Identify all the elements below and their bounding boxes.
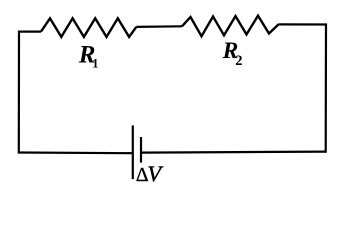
resistor R1: [41, 18, 136, 37]
wire: between R1 and R2: [136, 25, 182, 28]
battery plate left (long): [132, 125, 134, 179]
wire: right vertical side: [325, 23, 327, 152]
wire: bottom-left horizontal from battery to corner: [19, 151, 133, 154]
battery plate right (short): [140, 137, 142, 163]
wire: left vertical side: [18, 31, 20, 154]
wire: top-right horizontal from R2 to corner: [279, 23, 326, 25]
svg-text:2: 2: [235, 53, 242, 69]
wire: bottom-right horizontal from corner to battery: [141, 152, 326, 153]
wire: top-left horizontal from corner to R1: [18, 31, 41, 33]
resistor R2: [182, 16, 279, 37]
svg-text:V: V: [147, 161, 163, 186]
svg-text:1: 1: [92, 56, 98, 70]
